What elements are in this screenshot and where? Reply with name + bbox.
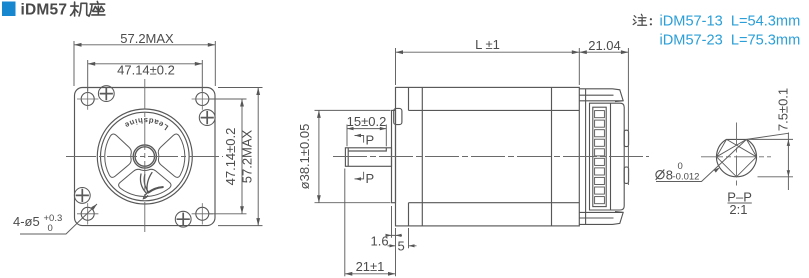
svg-text:P: P	[366, 133, 375, 148]
L dim line	[396, 51, 580, 53]
rear connector assembly	[579, 89, 628, 225]
dim 57.2MAX top: extension lines	[73, 41, 75, 86]
motor body outline	[396, 87, 580, 226]
front boss dia38.1	[392, 110, 396, 202]
svg-text:47.14±0.2: 47.14±0.2	[223, 128, 238, 186]
middle view centerline	[333, 156, 649, 158]
rear top ridge lines	[579, 89, 622, 101]
title glyph JI (machine)	[71, 2, 89, 16]
assembly screws 4x (phillips)	[74, 86, 215, 227]
Leadshine bird logo	[140, 173, 163, 199]
svg-text:47.14±0.2: 47.14±0.2	[117, 63, 175, 78]
front screw head (side)	[394, 108, 402, 124]
svg-text:2:1: 2:1	[729, 202, 747, 217]
L dim extension line left	[395, 48, 397, 85]
svg-text:iDM57-23 L=75.3mm: iDM57-23 L=75.3mm	[660, 33, 801, 49]
7.5 dim	[656, 133, 793, 191]
screw BR	[175, 211, 191, 227]
title icon square	[2, 2, 16, 17]
L / 21.04 shared extension	[578, 48, 580, 85]
pin row	[595, 111, 605, 118]
svg-text:-0.012: -0.012	[673, 172, 700, 183]
dim line 47.14 top	[88, 63, 203, 65]
screw TR	[199, 110, 215, 126]
4-dia5 leader	[20, 204, 97, 234]
connector pins	[595, 111, 605, 204]
rear cap line	[585, 89, 587, 224]
front view centerlines	[66, 79, 223, 234]
21 dim line	[345, 273, 396, 275]
bottom ext line	[758, 176, 794, 178]
svg-text:5: 5	[398, 239, 405, 254]
dim line 47.14 right	[241, 99, 243, 214]
21.04 extension right	[627, 48, 629, 185]
rear cap boundary	[551, 87, 553, 226]
flat ext line	[749, 138, 794, 140]
mounting hole TR	[196, 93, 209, 106]
front cap boundary	[421, 87, 423, 226]
dia8 leader	[656, 139, 747, 181]
dia38.1 dim line	[318, 110, 320, 202]
section hatch lines	[717, 139, 757, 176]
svg-text:4-ø5: 4-ø5	[13, 214, 40, 229]
21 ext line left	[344, 169, 346, 277]
shaft	[345, 148, 391, 167]
P section marker upper	[355, 136, 364, 143]
dim line 57.2MAX	[74, 44, 215, 46]
15 dim line	[347, 128, 386, 130]
5 dim + outside arrow tails	[388, 245, 417, 247]
rear top latch tab	[613, 89, 624, 102]
vertical centerline	[144, 79, 146, 234]
svg-text:ø38.1±0.05: ø38.1±0.05	[297, 124, 312, 190]
body corner tangent lines	[409, 110, 580, 202]
horizontal centerline	[66, 156, 223, 158]
shaft flat line	[348, 148, 386, 151]
connector housing	[590, 103, 625, 210]
note colon	[650, 18, 652, 20]
title glyph ZUO (seat)	[89, 1, 105, 16]
1.6 dim + outside arrow tails	[386, 234, 402, 236]
dim 47.14 top: extension lines	[87, 60, 89, 92]
rotor cutout east	[158, 134, 185, 177]
connector latch bump lower	[624, 167, 628, 183]
P-P centerlines	[701, 123, 771, 189]
shaft tip chamfer line	[347, 148, 349, 167]
rotor rim circle	[101, 112, 190, 201]
mounting hole TL	[81, 93, 94, 106]
dim line	[787, 133, 789, 191]
svg-text:1.6: 1.6	[371, 234, 389, 249]
1.6 ext lines	[391, 206, 393, 238]
section circle with flat	[717, 139, 757, 176]
screw BL	[74, 188, 90, 204]
housing inner wall	[610, 103, 612, 210]
svg-text:21.04: 21.04	[588, 38, 621, 53]
hole crosshairs	[77, 88, 213, 224]
svg-text:Leadshine: Leadshine	[122, 116, 170, 132]
rotor cutout west	[105, 134, 132, 177]
svg-text:57.2MAX: 57.2MAX	[120, 31, 174, 46]
P section marker lower	[355, 172, 364, 179]
rotor outer circle	[97, 109, 192, 204]
dim line 57.2 right	[257, 88, 259, 226]
svg-text:iDM57-13 L=54.3mm: iDM57-13 L=54.3mm	[660, 14, 801, 30]
15 dim ext lines	[346, 125, 348, 147]
connector latch bump upper	[624, 130, 628, 146]
note label ZHU (note)	[633, 14, 646, 25]
svg-text:57.2MAX: 57.2MAX	[240, 129, 255, 183]
5 ext line right	[408, 228, 410, 248]
rear bottom ridge lines	[579, 212, 622, 224]
svg-text:L ±1: L ±1	[475, 37, 500, 52]
mounting hole BL	[81, 207, 94, 220]
21.04 dim line	[579, 51, 628, 53]
hub circle mid	[135, 147, 154, 166]
right dims extension lines	[209, 98, 247, 100]
svg-text:21±1: 21±1	[356, 259, 385, 274]
mounting hole BR	[196, 207, 209, 220]
rotor cutout south	[119, 169, 171, 196]
arrows middle	[396, 50, 404, 54]
hub circle outer	[133, 145, 156, 168]
mounting holes 4x	[81, 93, 209, 221]
arrows front	[74, 43, 82, 47]
svg-text:7.5±0.1: 7.5±0.1	[776, 88, 791, 131]
screw TL	[98, 86, 114, 102]
svg-text:+0.3: +0.3	[44, 213, 63, 224]
front plate corner verticals	[408, 87, 410, 226]
label dia8 diameter symbol	[656, 170, 665, 180]
svg-text:iDM57: iDM57	[21, 1, 68, 18]
svg-text:0: 0	[48, 223, 53, 234]
pin strip frame	[593, 107, 606, 206]
rear bottom latch tab	[613, 212, 624, 225]
shaft axis centerline	[333, 156, 649, 158]
svg-text:15±0.2: 15±0.2	[347, 114, 387, 129]
front view flange plate	[75, 88, 216, 226]
dia38.1 ext lines	[315, 109, 391, 111]
svg-text:0: 0	[678, 161, 683, 172]
svg-text:P: P	[366, 171, 375, 186]
